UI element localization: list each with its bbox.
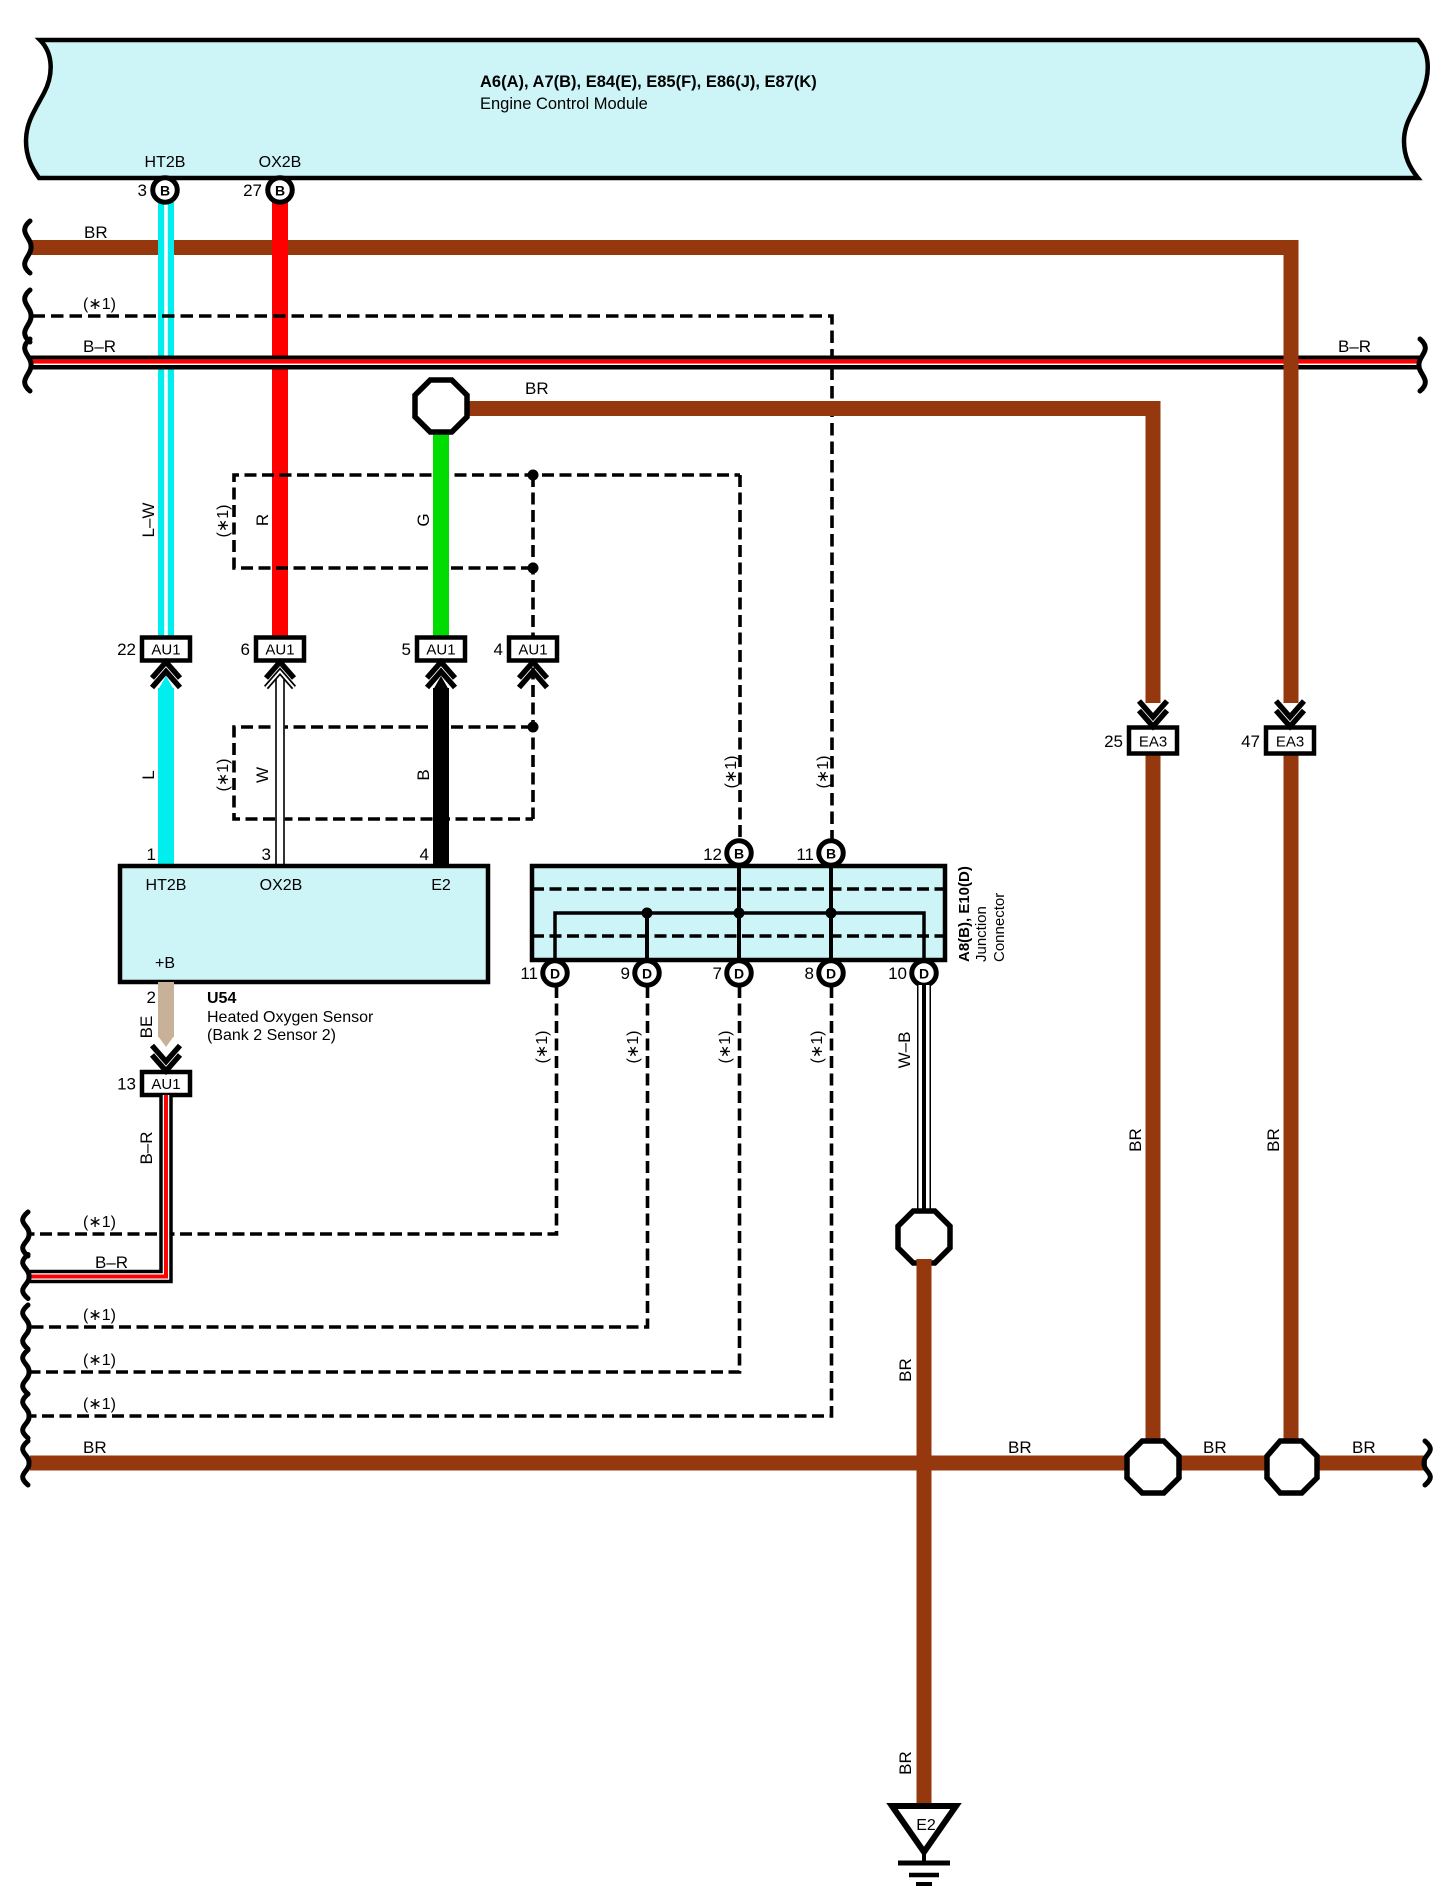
junction pin 9 D circle: [621, 961, 660, 986]
svg-text:Engine Control Module: Engine Control Module: [480, 95, 648, 113]
svg-text:Connector: Connector: [991, 893, 1008, 962]
junction pin 7 D circle: [713, 961, 752, 986]
label B-R vertical: [137, 1131, 156, 1164]
svg-text:B–R: B–R: [95, 1253, 128, 1272]
connector 4 AU1: [494, 638, 557, 688]
wire L-W cyan from ECM pin 3: [158, 202, 174, 638]
torn edge mark BR bottom right: [1424, 1441, 1430, 1485]
svg-text:(∗1): (∗1): [83, 1352, 116, 1369]
svg-text:Heated Oxygen Sensor: Heated Oxygen Sensor: [207, 1009, 374, 1026]
wire BR top horizontal: [30, 240, 1299, 255]
label (*1) upper dashed box: [215, 505, 232, 538]
label L-W: [139, 503, 158, 538]
connector 5 AU1: [402, 638, 465, 688]
label R: [253, 514, 272, 526]
torn edge mark B-R left: [25, 339, 31, 391]
label G: [414, 513, 433, 526]
svg-text:(Bank 2 Sensor 2): (Bank 2 Sensor 2): [207, 1027, 336, 1044]
ground symbol E2: [892, 1806, 956, 1884]
svg-text:(∗1): (∗1): [815, 756, 832, 789]
svg-text:9: 9: [621, 964, 630, 983]
ECM box: Engine Control Module A6(A), A7(B), E84(E), E85(F), E86(J), E87(K): [26, 40, 1428, 178]
ECM pin 3 B circle: [138, 178, 178, 203]
connector 47 EA3: [1241, 701, 1314, 754]
svg-text:Junction: Junction: [973, 906, 990, 962]
svg-text:5: 5: [402, 640, 411, 659]
svg-text:BR: BR: [896, 1358, 915, 1382]
svg-text:27: 27: [243, 181, 262, 200]
label BR vertical 1: [1126, 1128, 1145, 1152]
svg-text:B–R: B–R: [137, 1131, 156, 1164]
svg-text:AU1: AU1: [265, 642, 294, 659]
torn edge mark (*1) row1 left: [23, 1212, 29, 1256]
octagon node A (BR tap): [415, 380, 467, 432]
wire W-B from pin 10 D to octagon: [917, 985, 931, 1211]
wire B black below 5 AU1: [433, 676, 449, 866]
svg-text:4: 4: [494, 640, 503, 659]
svg-text:+B: +B: [155, 955, 175, 972]
U54 description: [207, 990, 374, 1044]
svg-text:8: 8: [805, 964, 814, 983]
svg-text:(∗1): (∗1): [83, 1214, 116, 1231]
svg-text:BR: BR: [83, 1438, 107, 1457]
wire B-R horizontal top: [30, 356, 1420, 370]
torn edge mark (*1) row4 left: [23, 1394, 29, 1438]
svg-text:HT2B: HT2B: [146, 877, 187, 894]
svg-text:E2: E2: [916, 1817, 936, 1834]
svg-text:2: 2: [147, 988, 156, 1007]
connector 13 AU1: [117, 1046, 190, 1096]
torn edge mark B-R bottom left: [23, 1255, 29, 1299]
svg-text:BR: BR: [896, 1751, 915, 1775]
dashed box (*1) around R and G wires: [234, 475, 740, 819]
svg-text:BR: BR: [1126, 1128, 1145, 1152]
svg-text:(∗1): (∗1): [215, 505, 232, 538]
wire BR right vertical 1 (to 25 EA3): [1146, 401, 1161, 703]
junction pin 8 D circle: [805, 961, 844, 986]
svg-text:BR: BR: [1264, 1128, 1283, 1152]
junction pin 12 B circle: [703, 841, 751, 866]
wire BR from octagon to right vertical: [465, 401, 1161, 416]
wire BR bottom horizontal: [30, 1456, 1427, 1471]
wire R red from ECM pin 27: [272, 202, 288, 638]
svg-text:(∗1): (∗1): [717, 1031, 734, 1064]
label (*1) wire to pin 11B: [815, 756, 832, 789]
svg-text:B: B: [160, 183, 170, 199]
dashed wire (*1) to junction pin 12 B: [738, 475, 742, 840]
svg-text:B: B: [275, 183, 285, 199]
label (*1) lower dashed box: [215, 759, 232, 792]
svg-text:W: W: [253, 767, 272, 783]
svg-text:BR: BR: [1203, 1438, 1227, 1457]
svg-text:BE: BE: [137, 1016, 156, 1039]
junction connector label: [956, 866, 973, 962]
svg-text:D: D: [826, 966, 836, 982]
svg-text:(∗1): (∗1): [625, 1031, 642, 1064]
svg-text:10: 10: [888, 964, 907, 983]
junction pin 10 D circle: [888, 961, 936, 986]
junction dot at (533,475): [528, 470, 539, 481]
U54 Heated Oxygen Sensor box: [120, 845, 488, 1007]
svg-text:13: 13: [117, 1075, 136, 1094]
svg-text:(∗1): (∗1): [809, 1031, 826, 1064]
svg-text:D: D: [642, 966, 652, 982]
svg-text:11: 11: [520, 964, 538, 983]
svg-text:BR: BR: [84, 223, 108, 242]
dashed box (*1) around W and B wires: [234, 727, 533, 819]
junction dot at (533,727): [528, 722, 539, 733]
svg-text:D: D: [734, 966, 744, 982]
svg-text:(∗1): (∗1): [83, 1307, 116, 1324]
ECM pin 27 B circle: [243, 178, 292, 203]
svg-text:3: 3: [138, 181, 147, 200]
svg-text:OX2B: OX2B: [260, 877, 303, 894]
svg-text:(∗1): (∗1): [723, 756, 740, 789]
svg-text:A8(B), E10(D): A8(B), E10(D): [956, 866, 973, 962]
junction pin 11 B circle: [796, 841, 843, 866]
wire W white below 6 AU1: [275, 678, 285, 866]
connector 22 AU1: [117, 638, 190, 688]
octagon node B (W-B to BR): [898, 1211, 950, 1263]
svg-text:HT2B: HT2B: [145, 154, 186, 171]
torn edge mark B-R right: [1419, 339, 1425, 391]
label W-B: [895, 1032, 914, 1069]
octagon node C (vertical 1 joins bottom BR): [1127, 1441, 1179, 1493]
svg-text:7: 7: [713, 964, 722, 983]
svg-text:W–B: W–B: [895, 1032, 914, 1069]
dashed wire (*1) from pin 11 D to left edge: [30, 986, 557, 1234]
svg-text:B–R: B–R: [1338, 337, 1371, 356]
svg-text:AU1: AU1: [426, 642, 455, 659]
svg-text:L–W: L–W: [139, 503, 158, 538]
label (*1) vertical for pin 9D: [625, 1031, 642, 1064]
label BR vertical 2: [1264, 1128, 1283, 1152]
svg-text:(∗1): (∗1): [83, 1396, 116, 1413]
wire G green from octagon to 5 AU1: [433, 430, 449, 638]
dashed wire (*1) from pin 7 D to left edge: [30, 986, 740, 1372]
svg-text:OX2B: OX2B: [259, 154, 302, 171]
svg-text:B: B: [826, 846, 836, 862]
svg-text:B–R: B–R: [83, 337, 116, 356]
svg-text:L: L: [139, 770, 158, 779]
svg-text:EA3: EA3: [1139, 734, 1167, 751]
svg-text:4: 4: [420, 845, 429, 864]
torn edge mark BR top left: [25, 221, 31, 273]
dashed wire (*1) from pin 8 D to left edge: [30, 986, 832, 1416]
label B: [414, 769, 433, 780]
svg-text:BR: BR: [1008, 1438, 1032, 1457]
svg-text:11: 11: [796, 845, 814, 864]
junction connector A8(B), E10(D) box: [532, 866, 945, 960]
wire BR from octagon B to ground E2: [917, 1259, 932, 1806]
svg-text:1: 1: [147, 845, 156, 864]
svg-text:47: 47: [1241, 732, 1260, 751]
octagon node D (vertical 2 joins bottom BR): [1267, 1441, 1317, 1493]
torn edge mark (*1) row2 left: [23, 1305, 29, 1349]
dashed wire (*1) horizontal top to junction pin 11 B: [30, 316, 832, 840]
dashed wire (*1) from pin 9 D to left edge: [30, 986, 648, 1327]
junction pin 11 D circle: [520, 961, 567, 986]
svg-text:B: B: [734, 846, 744, 862]
svg-text:D: D: [550, 966, 560, 982]
wire B-R from 13 AU1 to left edge: [30, 1095, 166, 1277]
svg-text:AU1: AU1: [151, 642, 180, 659]
label (*1) vertical for pin 11D: [534, 1031, 551, 1064]
label BR above bottom line: [896, 1358, 915, 1382]
label (*1) vertical for pin 7D: [717, 1031, 734, 1064]
svg-text:E2: E2: [431, 877, 451, 894]
svg-text:25: 25: [1104, 732, 1123, 751]
svg-text:U54: U54: [207, 990, 236, 1007]
connector 6 AU1: [241, 638, 304, 688]
svg-text:R: R: [253, 514, 272, 526]
torn edge mark BR bottom left: [23, 1441, 29, 1485]
svg-text:6: 6: [241, 640, 250, 659]
connector 25 EA3: [1104, 701, 1177, 754]
torn edge mark (*1) row3 left: [23, 1350, 29, 1394]
svg-text:BR: BR: [1352, 1438, 1376, 1457]
label W: [253, 767, 272, 783]
svg-text:BR: BR: [525, 379, 549, 398]
svg-text:12: 12: [703, 845, 722, 864]
svg-text:B: B: [414, 769, 433, 780]
label L: [139, 770, 158, 779]
wire BE from U54 pin 2: [158, 982, 174, 1047]
svg-text:22: 22: [117, 640, 136, 659]
svg-text:(∗1): (∗1): [215, 759, 232, 792]
wire L cyan below 22 AU1: [158, 676, 174, 866]
label (*1) vertical for pin 8D: [809, 1031, 826, 1064]
svg-text:EA3: EA3: [1276, 734, 1304, 751]
svg-text:A6(A), A7(B), E84(E), E85(F),: A6(A), A7(B), E84(E), E85(F), E86(J), E8…: [480, 73, 817, 91]
svg-text:3: 3: [262, 845, 271, 864]
svg-text:AU1: AU1: [518, 642, 547, 659]
label BR above ground: [896, 1751, 915, 1775]
svg-text:(∗1): (∗1): [83, 296, 116, 313]
svg-text:D: D: [919, 966, 929, 982]
wire BR right vertical 2 (to 47 EA3): [1284, 240, 1299, 703]
label BE: [137, 1016, 156, 1039]
junction dot at (533,568): [528, 563, 539, 574]
label (*1) wire to pin 12B: [723, 756, 740, 789]
svg-text:(∗1): (∗1): [534, 1031, 551, 1064]
svg-text:AU1: AU1: [151, 1076, 180, 1093]
torn edge mark (*1) top left: [25, 290, 31, 342]
svg-text:G: G: [414, 513, 433, 526]
